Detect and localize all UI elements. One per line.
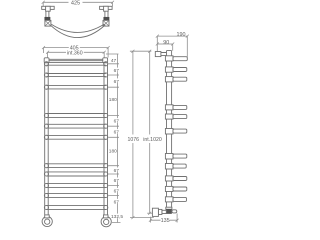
rung 3 (front view) [46,86,105,89]
svg-text:int.360: int.360 [67,50,83,56]
tab 5 (side view) [173,115,187,119]
valve flange (side view bottom) [166,207,172,209]
valve pipe right [172,210,177,213]
svg-text:67: 67 [114,119,120,125]
svg-text:132,5: 132,5 [111,214,123,220]
svg-text:67: 67 [114,178,120,184]
svg-text:67: 67 [114,130,120,136]
rung 8 (front view) [46,172,105,176]
dim int.360 text [66,50,84,56]
tab 9 (side view) [173,177,187,181]
rung 5 (front view) [46,124,105,128]
ball joints left rail [44,62,48,210]
tab 2 (side view) [173,68,187,72]
rung 11 (front view) [46,206,105,210]
dim 135 [149,214,179,223]
foot connector left [45,215,50,218]
dim 405 [42,46,110,57]
tab connector 11 (side view) [165,197,173,202]
tab connector 7 (side view) [165,154,173,160]
valve nut dark [166,209,171,213]
svg-text:67: 67 [114,199,120,205]
pole (side view) [167,51,172,208]
tab connector 5 (side view) [165,114,173,119]
valve pipe left [162,210,166,213]
tab connector 4 (side view) [165,105,173,110]
valve collar [158,209,162,214]
dim int.360 [46,51,106,63]
dim 425 line [42,1,114,6]
rung 1 (front view) [46,62,105,65]
rung 10 (front view) [46,194,105,198]
svg-text:1076: 1076 [128,137,140,143]
rung 7 (front view) [46,164,105,168]
svg-text:425: 425 [71,1,80,7]
tab connector 10 (side view) [165,186,173,191]
svg-text:67: 67 [114,188,120,194]
side view: dim 190 [156,35,189,57]
rung 2 (front view) [46,74,105,77]
svg-text:int.1020: int.1020 [143,137,162,143]
ball joints right rail [104,62,108,210]
knob left [44,58,49,63]
tab 3 (side view) [173,77,187,81]
foot right [101,217,111,227]
side view: dim 90 [156,43,174,51]
dim 90 text [163,40,171,46]
bracket right (top view) [100,6,113,26]
svg-text:135: 135 [161,218,170,224]
tab 10 (side view) [173,187,187,191]
foot connector right [104,215,109,218]
rung 4 (front view) [46,114,105,118]
bow tab 1 (side view) [173,57,187,61]
tab 4 (side view) [173,105,187,109]
tab connector 9 (side view) [165,176,173,181]
svg-text:190: 190 [177,32,186,38]
dim 405 text [69,45,80,51]
svg-text:47: 47 [111,58,117,64]
bow arc (top view) [51,24,106,38]
tab connector 2 (side view) [165,67,173,72]
svg-text:180: 180 [109,97,117,103]
bracket arm (side view) [161,53,167,56]
valve body [152,208,158,216]
svg-text:67: 67 [114,168,120,174]
knob right [103,58,108,63]
foot left [42,216,52,226]
tab 6 (side view) [173,129,187,133]
chain labels [109,58,124,220]
wall plate (side view) [155,52,161,57]
bracket left (top view) [42,6,55,26]
svg-text:67: 67 [114,79,120,85]
tab connector 8 (side view) [165,164,173,170]
top bar (front view) [49,59,103,60]
side view: dim int.1020 vertical [147,50,152,215]
rail left (front view) [45,64,49,215]
chain dimension line (front view right) [106,54,121,223]
side view: dim 1076 vertical [130,50,154,219]
tab 8 (side view) [173,164,186,168]
rung 6 (front view) [46,135,105,139]
tab 11 (side view) [173,197,187,201]
tab connector 6 (side view) [165,129,173,135]
tab connector 1 (side view) [165,56,173,61]
svg-text:180: 180 [109,149,117,155]
rung 9 (front view) [46,184,105,188]
tab connector 3 (side view) [165,77,173,82]
rail right (front view) [104,64,108,215]
svg-text:67: 67 [114,68,120,74]
tab 7 (side view) [173,154,187,158]
svg-text:90: 90 [163,40,169,46]
dim 190 text [176,32,187,38]
